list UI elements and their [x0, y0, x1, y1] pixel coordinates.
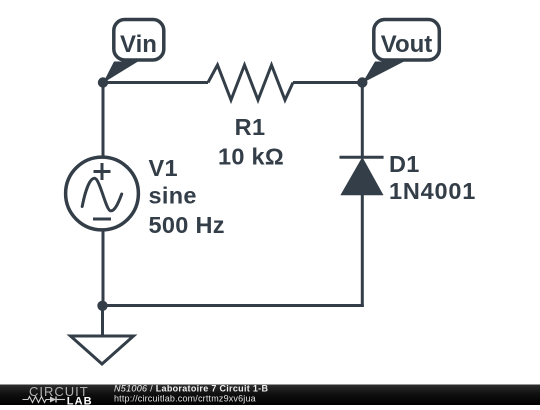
value label 500 Hz: [149, 212, 225, 238]
svg-text:R1: R1: [235, 114, 266, 140]
svg-text:LAB: LAB: [67, 395, 93, 405]
svg-text:10 kΩ: 10 kΩ: [218, 143, 284, 169]
wire: Vout node down to diode D1 cathode: [361, 83, 364, 158]
value label 1N4001: [389, 178, 476, 204]
svg-text:D1: D1: [389, 151, 420, 177]
svg-text:http://circuitlab.com/crttmz9x: http://circuitlab.com/crttmz9xv6jua: [114, 393, 256, 403]
CircuitLab logo schematic doodle (resistor + diode): [23, 397, 66, 403]
svg-text:1N4001: 1N4001: [389, 178, 476, 204]
designator label D1: [389, 151, 420, 177]
wire: Vin node down to V1 top terminal: [102, 83, 105, 159]
ground: [71, 306, 134, 365]
value label sine: [149, 183, 197, 209]
svg-text:500 Hz: 500 Hz: [149, 212, 225, 238]
wire: Vin node to resistor R1 left lead: [103, 81, 208, 84]
diode D1: [340, 157, 384, 195]
svg-text:Vout: Vout: [381, 31, 433, 58]
wire: bottom rail from ground junction to right rail: [103, 304, 364, 307]
CircuitLab logo wordmark LAB: [67, 395, 93, 407]
junction dot at Vin node: [98, 77, 108, 87]
svg-text:V1: V1: [149, 155, 178, 181]
node flag Vout: [362, 20, 439, 84]
junction dot at Vout node: [357, 77, 367, 87]
CircuitLab logo wordmark CIRCUIT: [29, 384, 89, 399]
svg-text:Vin: Vin: [120, 31, 157, 58]
wire: diode D1 anode down to bottom rail: [361, 195, 364, 307]
wire: V1 bottom terminal down to ground junction: [102, 230, 105, 306]
resistor R1: [208, 65, 293, 100]
footer url line: http://circuitlab.com/crttmz9xv6jua: [114, 393, 256, 403]
footer bar: [0, 385, 540, 406]
node flag Vin: [103, 20, 164, 84]
junction dot at ground node: [97, 301, 107, 311]
wire: resistor R1 right lead to Vout node: [293, 81, 362, 84]
footer title line: N51006 / Laboratoire 7 Circuit 1-B: [114, 384, 268, 394]
voltage source V1 (sine): [66, 157, 139, 230]
designator label R1: [235, 114, 266, 140]
value label 10 kΩ: [218, 143, 284, 169]
designator label V1: [149, 155, 178, 181]
svg-text:sine: sine: [149, 183, 197, 209]
svg-text:N51006 / Laboratoire 7 Circuit: N51006 / Laboratoire 7 Circuit 1-B: [114, 384, 268, 394]
